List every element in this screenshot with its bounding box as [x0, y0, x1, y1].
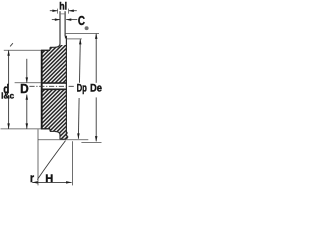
nub right vertical: [67, 136, 69, 138]
plate right edge main: [65, 36, 67, 136]
svg-text:r: r: [30, 171, 34, 185]
Dp bottom extension: [38, 139, 88, 141]
dimension D lower: [26, 95, 28, 129]
dimension C right: [66, 19, 77, 21]
dimension d line upper: [8, 51, 10, 85]
step top: [49, 47, 51, 50]
axis dash-dot: [29, 85, 74, 87]
dimension De line upper: [95, 34, 97, 83]
plate left edge upper: [59, 11, 61, 44]
ledge top: [50, 46, 55, 48]
bore top extension (D): [15, 82, 41, 84]
nub jog: [66, 135, 67, 137]
hub left edge: [41, 50, 43, 129]
Dp top extension: [67, 38, 82, 40]
svg-text:D: D: [20, 82, 29, 96]
De top extension: [65, 33, 99, 35]
H left extension: [37, 129, 39, 185]
plate left edge lower: [59, 134, 61, 139]
H right extension: [72, 141, 74, 185]
svg-text:De: De: [90, 83, 102, 95]
De bottom extension: [81, 141, 101, 143]
hub top edge: [41, 49, 50, 51]
h1 stubs: [57, 9, 59, 14]
slash tick at d top: [10, 43, 13, 46]
dimension D upper: [26, 59, 28, 83]
ink blob: [85, 26, 89, 30]
leader curve r: [37, 141, 65, 180]
svg-text:C: C: [78, 13, 86, 28]
step bottom: [49, 129, 51, 132]
plate right edge upper: [64, 11, 66, 36]
chamfer bottom right: [65, 138, 68, 140]
dimension De line lower: [95, 97, 97, 141]
plate top edge: [60, 13, 65, 15]
dimension Dp line lower: [77, 98, 80, 139]
fillet top: [55, 44, 60, 47]
hub bottom extension (d): [1, 128, 42, 130]
plate bottom edge: [60, 138, 65, 140]
hub top extension (d): [4, 49, 41, 51]
dimension C left: [52, 19, 60, 21]
hub bottom edge: [41, 128, 50, 130]
hatched section body: [41, 45, 67, 139]
bore bottom line: [41, 88, 66, 90]
fillet bottom: [55, 131, 60, 134]
dimension Dp line upper: [79, 39, 82, 83]
svg-text:hl: hl: [59, 1, 67, 12]
ledge bottom: [50, 130, 55, 132]
dimension h1 right: [69, 10, 77, 12]
svg-text:H: H: [45, 173, 53, 185]
dimension H line: [32, 181, 71, 183]
jog ledge top: [65, 35, 66, 37]
dimension h1 left: [50, 10, 58, 12]
svg-text:I&c: I&c: [1, 92, 15, 101]
jog nub fill: [65, 36, 67, 39]
svg-text:Dp: Dp: [77, 83, 87, 95]
dimension d line lower: [8, 96, 10, 129]
bore top line: [41, 82, 66, 84]
